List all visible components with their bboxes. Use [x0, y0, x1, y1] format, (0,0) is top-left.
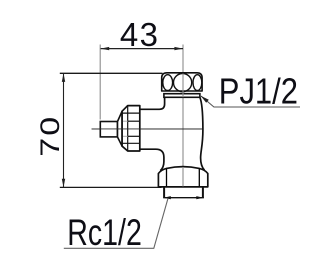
body right edge	[200, 97, 205, 170]
arrow 70 top	[62, 73, 65, 82]
pipe arrow right	[196, 196, 203, 199]
svg-text:PJ1/2: PJ1/2	[219, 72, 298, 112]
svg-text:70: 70	[34, 115, 65, 157]
knob shading left 2	[123, 135, 128, 137]
handle cone	[118, 111, 123, 146]
hex facet line right	[198, 169, 200, 187]
nut centerline segment	[182, 74, 184, 98]
arrow 70 bottom	[62, 179, 65, 188]
handle horizontal centerline	[92, 128, 203, 130]
bonnet bottom and body lower-left edge	[140, 149, 164, 170]
extension line 43 left	[99, 45, 101, 120]
body left edge and bonnet top	[140, 97, 164, 109]
dimension line 70	[63, 73, 65, 187]
pipe right edge	[202, 187, 204, 198]
nut left ellipse	[163, 75, 173, 91]
nut center circle	[174, 74, 192, 92]
leader PJ arrowhead	[201, 96, 209, 103]
knob inner vertical	[127, 106, 129, 151]
leader PJ1/2	[201, 96, 300, 107]
union nut outline	[162, 73, 202, 91]
pipe arrow left	[164, 196, 171, 199]
knob band line 1	[123, 112, 140, 114]
arrow 43 right	[174, 47, 183, 50]
nut right ellipse	[193, 75, 202, 91]
handle centerline over knob	[92, 128, 203, 130]
extension line 70 top	[60, 72, 163, 74]
leader Rc1/2	[64, 198, 168, 248]
handle stem	[100, 122, 117, 137]
pipe end line	[163, 197, 204, 199]
washer band	[164, 94, 200, 98]
hex nut silhouette	[158, 167, 207, 187]
arrow 43 left	[101, 47, 110, 50]
knob shading left 1	[123, 120, 128, 122]
hex centerline segment	[182, 167, 184, 186]
pipe left edge	[163, 187, 165, 198]
dimension line 43	[101, 48, 183, 50]
body vertical centerline	[182, 45, 184, 188]
handle knob outline	[122, 106, 140, 151]
knob band line 2	[128, 120, 140, 122]
extension line 70 bottom	[60, 186, 162, 188]
svg-text:43: 43	[120, 16, 160, 53]
svg-text:Rc1/2: Rc1/2	[67, 211, 142, 252]
hex facet line left	[166, 169, 168, 187]
knob band line 4	[123, 142, 140, 144]
knob band line 3	[128, 135, 140, 137]
